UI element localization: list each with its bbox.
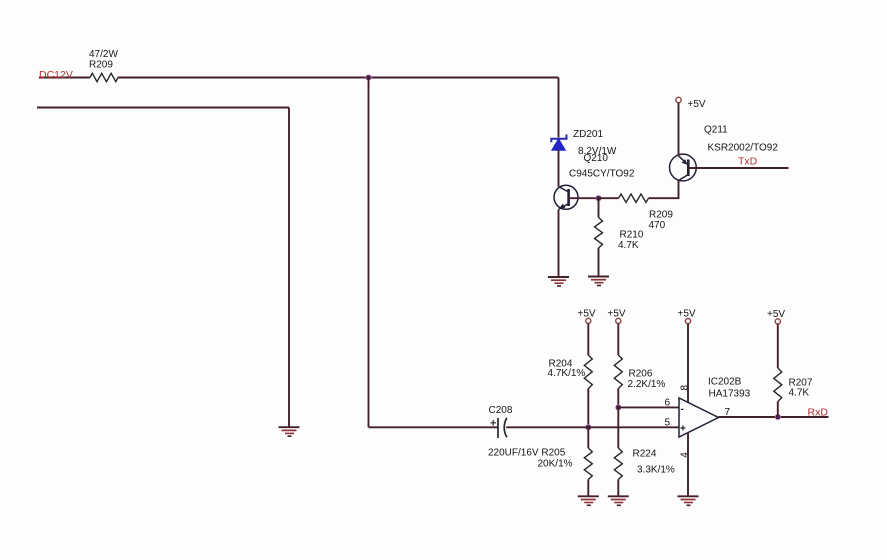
svg-text:+5V: +5V bbox=[767, 309, 785, 320]
pin 8 label (rotated) bbox=[679, 385, 690, 391]
power +5V P2 bbox=[578, 309, 596, 324]
svg-text:220UF/16V R205: 220UF/16V R205 bbox=[488, 448, 566, 459]
wire pin 4 to ground bbox=[687, 433, 689, 497]
svg-text:R224: R224 bbox=[633, 449, 657, 460]
svg-text:7: 7 bbox=[725, 407, 731, 418]
svg-text:Q211: Q211 bbox=[704, 125, 728, 136]
pin 6 label bbox=[665, 398, 671, 409]
resistor R209 (47/2W) bbox=[89, 49, 118, 82]
ground G2 bbox=[588, 277, 609, 286]
svg-text:Q210: Q210 bbox=[584, 153, 609, 164]
op-amp U IC202B HA17393 bbox=[679, 377, 751, 438]
wire R209 to corner bbox=[118, 77, 559, 79]
wire J2 down to R210 bbox=[598, 198, 600, 217]
svg-text:HA17393: HA17393 bbox=[709, 389, 751, 400]
wire Q210 emitter to ground bbox=[558, 210, 560, 278]
svg-text:R209: R209 bbox=[89, 60, 113, 71]
resistor R204 4.7K/1% bbox=[548, 355, 593, 389]
transistor Q211 KSR2002/TO92 bbox=[670, 125, 779, 181]
wire R210 to ground bbox=[598, 248, 600, 277]
wire J2 to R209(470) bbox=[599, 197, 619, 199]
wire top net down to zener bbox=[558, 78, 560, 138]
ground G4 bbox=[578, 496, 599, 505]
zener diode ZD201 8.2V/1W bbox=[551, 129, 617, 157]
svg-text:+5V: +5V bbox=[608, 309, 626, 320]
transistor Q210 C945CY/TO92 bbox=[554, 153, 635, 210]
svg-text:470: 470 bbox=[649, 220, 666, 231]
pin 7 label bbox=[725, 407, 731, 418]
capacitor C208 220UF/16V bbox=[488, 405, 566, 459]
wire P2 to R204 bbox=[587, 324, 589, 356]
wire down to ground G1 bbox=[288, 108, 290, 428]
svg-text:+5V: +5V bbox=[578, 309, 596, 320]
node junction J1 bbox=[366, 75, 372, 81]
svg-text:C945CY/TO92: C945CY/TO92 bbox=[569, 169, 635, 180]
svg-text:3.3K/1%: 3.3K/1% bbox=[637, 465, 675, 476]
power +5V P1 bbox=[676, 97, 706, 110]
svg-text:RxD: RxD bbox=[808, 407, 829, 419]
wire R207 to J5 bbox=[777, 402, 779, 417]
svg-text:R206: R206 bbox=[629, 369, 653, 380]
resistor R205 20K/1% bbox=[538, 448, 593, 480]
ground G5 bbox=[608, 496, 629, 505]
svg-text:4: 4 bbox=[680, 452, 691, 458]
power +5V P3 bbox=[608, 309, 626, 324]
svg-text:ZD201: ZD201 bbox=[573, 129, 603, 140]
node junction J5 bbox=[775, 414, 781, 420]
power +5V P4 bbox=[678, 309, 696, 324]
node DC12V bbox=[39, 69, 73, 81]
node junction J3 bbox=[585, 424, 591, 430]
svg-text:2.2K/1%: 2.2K/1% bbox=[628, 379, 666, 390]
wire P3 to R206 bbox=[617, 324, 619, 356]
wire Q210 base bbox=[569, 197, 599, 199]
pin 4 label (rotated) bbox=[680, 452, 691, 458]
wire op-amp output to RxD bbox=[719, 416, 829, 418]
ground G1 bbox=[279, 427, 300, 436]
pin 5 label bbox=[665, 418, 671, 429]
resistor R224 3.3K/1% bbox=[614, 448, 675, 480]
power +5V P5 bbox=[767, 309, 785, 324]
node junction J2 bbox=[596, 195, 602, 201]
svg-text:KSR2002/TO92: KSR2002/TO92 bbox=[708, 143, 779, 154]
wire R209(470) to Q211 collector corner bbox=[649, 181, 679, 199]
wire R205 to ground bbox=[587, 480, 589, 497]
svg-text:DC12V: DC12V bbox=[39, 69, 73, 81]
svg-text:6: 6 bbox=[665, 398, 671, 409]
wire R224 to ground bbox=[617, 480, 619, 497]
svg-text:+5V: +5V bbox=[678, 309, 696, 320]
svg-text:+5V: +5V bbox=[688, 99, 706, 110]
svg-text:47/2W: 47/2W bbox=[89, 49, 118, 60]
svg-text:8: 8 bbox=[679, 385, 690, 391]
wire TxD from Q211 base bbox=[688, 167, 788, 169]
resistor R210 4.7K bbox=[595, 218, 644, 252]
wire pin5 net to capacitor bbox=[369, 426, 499, 428]
wire R206 to J4 bbox=[617, 389, 619, 408]
node RxD bbox=[808, 407, 829, 419]
svg-text:TxD: TxD bbox=[738, 156, 758, 168]
resistor R209 470 bbox=[619, 194, 674, 231]
wire DC12V feed bbox=[39, 77, 90, 79]
ground G6 bbox=[678, 496, 699, 505]
wire J3 down to R205 bbox=[587, 427, 589, 448]
svg-text:+: + bbox=[680, 424, 686, 435]
wire +5V to Q211 emitter bbox=[678, 103, 680, 156]
svg-text:20K/1%: 20K/1% bbox=[538, 459, 573, 470]
svg-text:-: - bbox=[681, 404, 684, 415]
wire R204 to J3 bbox=[587, 389, 589, 428]
node TxD bbox=[738, 156, 758, 168]
svg-text:R209: R209 bbox=[649, 210, 673, 221]
svg-text:C208: C208 bbox=[489, 405, 513, 416]
resistor R206 2.2K/1% bbox=[614, 355, 665, 390]
wire zener to Q210 collector bbox=[558, 150, 560, 187]
resistor R207 4.7K bbox=[774, 368, 813, 402]
svg-text:5: 5 bbox=[665, 418, 671, 429]
wire op-amp pin 6 input bbox=[618, 406, 679, 408]
svg-text:4.7K: 4.7K bbox=[789, 388, 810, 399]
wire second horizontal line bbox=[37, 107, 289, 109]
wire P5 to R207 bbox=[777, 324, 779, 368]
svg-text:4.7K/1%: 4.7K/1% bbox=[548, 368, 586, 379]
wire J1 down to lower net bbox=[368, 78, 370, 428]
ground G3 bbox=[548, 277, 569, 286]
node junction J4 bbox=[615, 404, 621, 410]
wire pin 8 supply bbox=[687, 324, 689, 403]
svg-text:4.7K: 4.7K bbox=[618, 240, 639, 251]
svg-text:R210: R210 bbox=[620, 230, 644, 241]
wire capacitor to op-amp pin 5 bbox=[506, 426, 679, 428]
svg-text:IC202B: IC202B bbox=[708, 377, 742, 388]
wire J4 down to R224 (crosses pin5 wire) bbox=[617, 407, 619, 448]
